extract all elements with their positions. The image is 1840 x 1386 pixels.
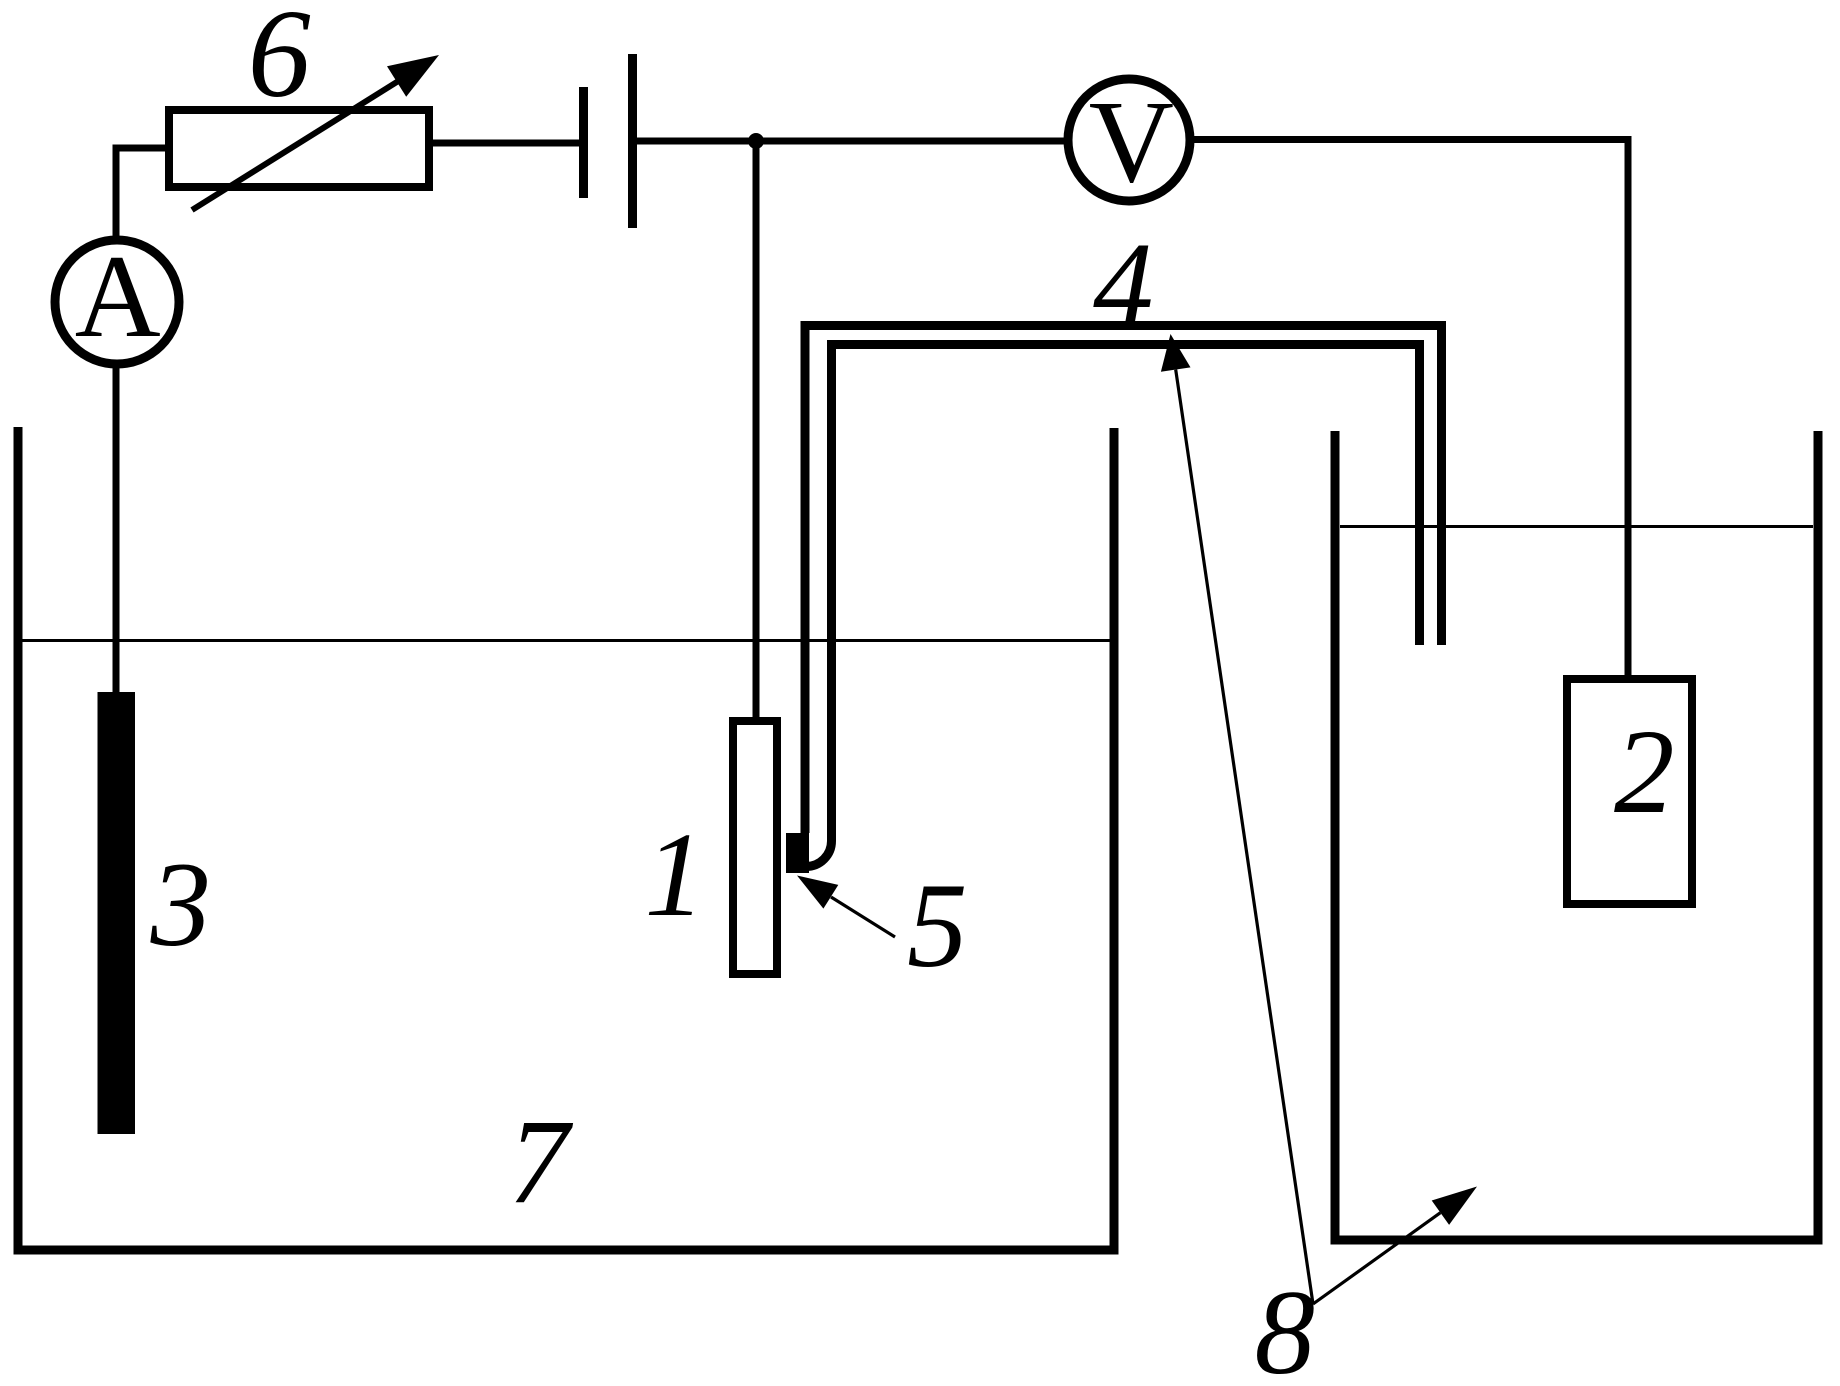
- svg-text:1: 1: [645, 808, 706, 942]
- svg-text:5: 5: [907, 859, 968, 993]
- svg-text:A: A: [75, 230, 161, 362]
- svg-text:7: 7: [509, 1095, 574, 1229]
- svg-text:2: 2: [1614, 705, 1675, 839]
- svg-text:V: V: [1089, 76, 1174, 207]
- svg-text:4: 4: [1093, 218, 1154, 352]
- svg-text:6: 6: [248, 0, 311, 124]
- svg-text:3: 3: [150, 838, 212, 972]
- svg-text:8: 8: [1255, 1266, 1316, 1386]
